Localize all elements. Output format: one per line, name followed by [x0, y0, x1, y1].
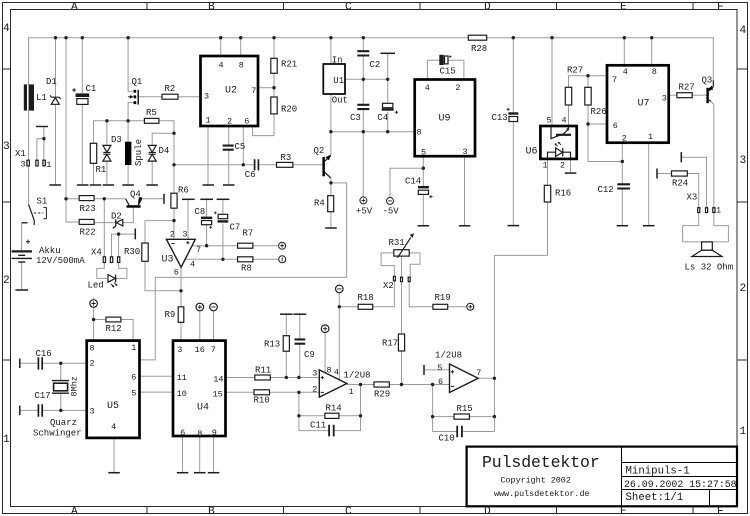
stub bar D2 X4: [134, 229, 136, 240]
ground bar R4: [325, 227, 337, 229]
junction at 401.5,384.5: [400, 383, 403, 386]
title block row lines: [622, 463, 738, 490]
stub bar C7 top: [217, 198, 230, 200]
svg-text:3: 3: [204, 92, 209, 102]
svg-text:R18: R18: [358, 293, 374, 303]
wire C4 bottom: [387, 112, 389, 132]
svg-text:5: 5: [421, 148, 426, 158]
wire R31 right loop: [409, 253, 420, 278]
wire X2 pin3 to R19: [409, 282, 433, 307]
svg-text:X1: X1: [15, 149, 26, 159]
wire R27a top to U7 pin7: [569, 76, 608, 88]
junction at 243.3,164.8: [242, 163, 245, 166]
wire R23 left: [66, 198, 79, 200]
svg-text:L1: L1: [36, 93, 47, 103]
wire U8a minus supply rail: [338, 293, 340, 380]
svg-text:R17: R17: [382, 339, 398, 349]
svg-text:1: 1: [131, 343, 136, 353]
svg-text:4: 4: [425, 83, 430, 93]
junction at 330.9,37.7: [329, 36, 332, 39]
ground bar C12: [617, 225, 629, 227]
diode D1: [51, 98, 59, 105]
svg-text:5: 5: [547, 116, 552, 126]
svg-text:R12: R12: [106, 324, 122, 334]
ground bar R1: [90, 184, 102, 186]
capacitor C5: [223, 146, 234, 150]
wire speaker bracket left: [683, 213, 699, 242]
ground bar U6 pin2: [565, 172, 577, 174]
wire X3 stub to middle pin: [681, 157, 706, 208]
svg-text:R6: R6: [178, 186, 189, 196]
svg-text:4: 4: [111, 422, 116, 432]
ground bar U2 pin1: [203, 184, 215, 186]
stub bar C8 top: [200, 198, 213, 200]
wire antenna stub to C4: [387, 53, 389, 103]
capacitor C15: [440, 55, 443, 64]
resistor R2: [162, 94, 178, 99]
svg-text:F: F: [717, 506, 724, 516]
wire C9 stub down: [299, 314, 301, 339]
resistor R30: [142, 243, 148, 261]
resistor R9: [178, 307, 184, 323]
ground bar U4 pin6: [177, 472, 189, 474]
svg-text:X3: X3: [687, 193, 698, 203]
svg-text:R24: R24: [672, 179, 688, 189]
resistor R10: [254, 390, 270, 395]
svg-text:R7: R7: [243, 229, 254, 239]
wire bus to U7 pin8: [651, 38, 653, 66]
junction at 106.9,120.8: [105, 119, 108, 122]
battery Akku: [12, 250, 32, 252]
wire U8a plus supply: [324, 333, 326, 373]
wire R24 left stub: [657, 173, 672, 175]
wire U4 pin15 to R10: [226, 391, 255, 393]
junction at 339.3,306.8: [338, 305, 341, 308]
ground bar C1: [77, 184, 89, 186]
wire R14 right: [339, 415, 361, 417]
speaker Ls: [702, 242, 713, 250]
svg-text:2: 2: [622, 134, 627, 144]
junction at 240.7,37.7: [239, 36, 242, 39]
junction at 494.4,378.3: [493, 377, 496, 380]
op-amp U8b: [450, 364, 479, 393]
resistor R4: [328, 196, 334, 212]
wire R4 to ground: [330, 212, 332, 228]
svg-text:1: 1: [648, 132, 653, 142]
svg-text:2: 2: [312, 385, 317, 395]
resistor R27a: [565, 87, 571, 105]
junction at 93.6,319.5: [92, 318, 95, 321]
svg-text:3: 3: [662, 94, 667, 104]
svg-text:5: 5: [131, 389, 136, 399]
resistor R22: [79, 219, 94, 224]
junction at 60.8,410.4: [59, 409, 62, 412]
wire R5 right corner to R6 chain: [159, 121, 174, 193]
wire R18 to X2 pin1: [373, 281, 395, 307]
resistor R20: [271, 97, 277, 114]
svg-text:Pulsdetektor: Pulsdetektor: [482, 453, 600, 472]
wire C13 to ground: [512, 122, 514, 226]
quartz crystal: [52, 381, 69, 394]
svg-text:R19: R19: [435, 293, 451, 303]
svg-text:R13: R13: [264, 340, 280, 350]
svg-text:C4: C4: [377, 113, 388, 123]
svg-text:6: 6: [131, 373, 136, 383]
svg-text:R8: R8: [241, 264, 252, 274]
wire R2 to U2 pin3: [178, 96, 201, 98]
junction at 432.6,416.6: [431, 415, 434, 418]
svg-text:In: In: [332, 56, 343, 66]
svg-text:R9: R9: [165, 310, 176, 320]
svg-text:R30: R30: [124, 247, 140, 257]
svg-text:11: 11: [177, 373, 187, 383]
svg-text:4: 4: [623, 67, 628, 77]
junction at 298.9,415.8: [297, 414, 300, 417]
ground bar battery: [15, 289, 28, 291]
junction at 387.7,131.7: [386, 130, 389, 133]
supply circle plus U8a: [321, 325, 329, 333]
svg-text:8: 8: [90, 344, 95, 354]
wire top supply bus left section: [29, 38, 469, 85]
svg-text:X2: X2: [383, 281, 394, 291]
wire U2 pin8 to bus: [240, 38, 242, 56]
svg-text:+5V: +5V: [356, 207, 373, 217]
svg-text:U6: U6: [526, 147, 538, 158]
wire U9 pin8 row: [331, 131, 415, 133]
wire U3 pin7 row to R7: [192, 245, 238, 247]
border right ticks: [737, 69, 748, 360]
stub bar X3 mid: [680, 152, 682, 162]
svg-text:X4: X4: [91, 248, 102, 258]
supply circle plus R19: [467, 303, 474, 310]
svg-text:R28: R28: [471, 44, 487, 54]
junction at 206.6,245.7: [205, 244, 208, 247]
svg-text:C10: C10: [439, 434, 455, 444]
wire R17 bottom: [401, 351, 403, 385]
resistor R19: [433, 304, 448, 309]
wire C12 to ground: [621, 189, 623, 226]
junction at 588,124: [586, 122, 589, 125]
svg-text:1: 1: [716, 206, 721, 216]
wire U5 pin5 to U4 pin10: [140, 391, 174, 393]
wire battery top lead: [21, 223, 23, 251]
junction at 181,290.8: [179, 289, 182, 292]
svg-text:S1: S1: [37, 197, 48, 207]
svg-text:6: 6: [613, 121, 618, 131]
svg-text:4: 4: [190, 260, 195, 270]
capacitor C14: [418, 186, 429, 189]
wire U8a output: [347, 384, 374, 386]
junction at 174,133.2: [172, 132, 175, 135]
wire C3 bottom: [362, 110, 364, 132]
wire U2 pin5 to R20: [253, 114, 274, 136]
svg-text:E: E: [620, 506, 627, 516]
supply circle plus U5 pin8: [90, 300, 98, 308]
svg-text:3: 3: [90, 407, 95, 417]
border left ticks: [3, 69, 11, 360]
transistor Q2: [322, 157, 325, 176]
ground bar C13: [508, 225, 519, 227]
svg-text:1: 1: [543, 161, 548, 171]
connector X3 pins: [698, 208, 700, 213]
wire C8 stub down: [206, 199, 208, 216]
capacitor C6: [255, 159, 259, 170]
svg-text:1/2U8: 1/2U8: [435, 351, 462, 361]
svg-text:Led: Led: [88, 281, 104, 291]
ic U4 box: [173, 341, 226, 436]
resistor R21: [271, 58, 277, 73]
wire X1 pin to S1: [28, 166, 30, 205]
junction at 363.3,131.7: [362, 130, 365, 133]
svg-text:R31: R31: [389, 238, 405, 248]
wire C5 to ground: [228, 151, 230, 185]
wire top supply bus right section: [487, 38, 714, 81]
capacitor C13: [508, 112, 518, 114]
svg-text:U1: U1: [333, 76, 344, 86]
supply circle plus U4 pin16: [196, 303, 204, 311]
capacitor C9: [295, 339, 306, 343]
op-amp U8a: [319, 370, 347, 397]
wire D4 branch: [152, 133, 174, 145]
wire U1 right pin row: [345, 78, 388, 80]
wire Led cathode to X4 pin3: [116, 263, 127, 279]
svg-text:R5: R5: [146, 108, 157, 118]
wire R12 loop: [94, 320, 134, 341]
svg-text:2: 2: [455, 83, 460, 93]
wire battery bottom lead: [21, 262, 23, 290]
wire D3 top: [106, 121, 108, 146]
optocoupler U6 internals: [556, 134, 571, 136]
wire R15 left: [433, 416, 454, 418]
wire R15 right: [469, 416, 494, 418]
resistor R5: [144, 118, 159, 123]
resistor R26: [585, 87, 591, 105]
svg-text:Quarz: Quarz: [50, 418, 77, 428]
stub bar R13 top: [280, 313, 293, 315]
svg-text:3: 3: [463, 147, 468, 157]
transistor Q3: [706, 88, 708, 103]
junction at 588,75.7: [586, 74, 589, 77]
wire R29 to pin6 row: [389, 384, 449, 386]
svg-text:C2: C2: [370, 60, 381, 70]
led Led: [108, 275, 115, 283]
stub bar C16 left: [19, 359, 21, 368]
wire C8 bottom: [206, 225, 208, 246]
wire U8b feedback left: [432, 385, 434, 417]
svg-text:U5: U5: [107, 401, 119, 412]
svg-text:R10: R10: [254, 396, 270, 406]
svg-text:4: 4: [740, 25, 747, 37]
wire node at y120.8 R1 D3 Q1 R5: [94, 120, 145, 122]
svg-text:C5: C5: [235, 142, 246, 152]
capacitor C12: [617, 184, 630, 188]
wire R19 to plus circle: [448, 306, 467, 308]
svg-text:U2: U2: [225, 86, 237, 97]
svg-text:4: 4: [334, 367, 339, 377]
svg-text:R21: R21: [281, 60, 297, 70]
svg-text:R23: R23: [80, 204, 96, 214]
ground bar Spule: [122, 184, 134, 186]
wire U2 pin7 to R21 R20 node: [258, 87, 274, 89]
ground bar U4 pin9: [208, 472, 220, 474]
svg-text:Ls 32 Ohm: Ls 32 Ohm: [685, 263, 734, 273]
wire bus to Q1 drain: [128, 38, 134, 91]
wire U4 pin9 to ground: [213, 436, 215, 473]
svg-text:R27: R27: [679, 83, 695, 93]
wire R13 bottom to pin3 row: [285, 351, 287, 377]
svg-text:U4: U4: [197, 403, 209, 414]
svg-text:2: 2: [560, 161, 565, 171]
resistor R7: [238, 243, 253, 248]
wire R21 to R20 node: [273, 73, 275, 97]
wire R3 to Q2 base: [293, 164, 323, 166]
capacitor C4: [383, 103, 393, 107]
wire bus to C1: [81, 38, 83, 94]
svg-text:6: 6: [174, 268, 179, 278]
svg-text:Sheet:1/1: Sheet:1/1: [626, 492, 684, 504]
svg-text:12V/500mA: 12V/500mA: [36, 256, 85, 266]
border top ticks: [147, 3, 693, 10]
junction at 118.6,234.1: [117, 232, 120, 235]
wire R24 right to X3 left pin: [687, 174, 698, 208]
wire R9 to U4 pin3: [180, 322, 182, 340]
wire C11 loop: [299, 416, 361, 431]
junction at 363.3,37.7: [362, 36, 365, 39]
svg-text:R2: R2: [165, 84, 176, 94]
wire U8a output to feedback: [360, 385, 362, 416]
wire U7 pin2 to C12: [621, 143, 623, 184]
junction at 66,37.7: [64, 36, 67, 39]
wire U3 pin3 to top stub: [187, 199, 189, 239]
svg-text:Q1: Q1: [132, 77, 143, 87]
junction at 66,198.8: [64, 197, 67, 200]
svg-text:R20: R20: [281, 105, 297, 115]
junction at 387.7,79.3: [386, 78, 389, 81]
resistor R29: [374, 382, 389, 387]
wire Spule top: [127, 121, 129, 142]
wire D1 to ground: [55, 104, 57, 184]
suppressor D4: [148, 145, 156, 161]
supply circle minus5V: [387, 197, 394, 204]
svg-text:1: 1: [740, 426, 747, 438]
svg-text:8Mhz: 8Mhz: [70, 376, 80, 396]
svg-text:4: 4: [3, 23, 10, 35]
junction at 513.3,37.7: [512, 36, 515, 39]
resistor R15: [454, 414, 469, 419]
svg-text:8: 8: [327, 366, 332, 376]
title block frame: [467, 447, 737, 507]
wire bus to C13: [512, 38, 514, 113]
svg-text:7: 7: [196, 245, 201, 255]
svg-text:E: E: [620, 1, 627, 13]
junction at 298.9,377.5: [297, 376, 300, 379]
wire R23 node down to X4 pin1: [103, 199, 105, 257]
junction at 286.3,377.5: [285, 376, 288, 379]
wire D4 to ground: [151, 161, 153, 185]
svg-text:8: 8: [197, 429, 202, 439]
svg-text:R15: R15: [457, 404, 473, 414]
svg-text:U9: U9: [439, 114, 451, 125]
optocoupler U6 box: [540, 126, 576, 159]
coil Spule: [125, 142, 131, 165]
svg-text:C: C: [345, 1, 352, 13]
svg-text:3: 3: [740, 155, 747, 167]
junction at 174,220.6: [172, 219, 175, 222]
wire X2 pin2 to R17: [401, 282, 403, 334]
svg-text:C6: C6: [245, 170, 256, 180]
svg-text:4: 4: [562, 116, 567, 126]
wire R26 bottom chain: [588, 105, 622, 162]
junction at 624.3,37.7: [623, 36, 626, 39]
wire speaker bracket right: [714, 213, 729, 242]
svg-text:C17: C17: [35, 391, 51, 401]
supply circle plus5V: [360, 197, 367, 204]
junction at 423.3,168.2: [422, 167, 425, 170]
wire C14 to ground: [422, 194, 424, 225]
wire bus to U7 pin4: [623, 38, 625, 66]
wire R7 to plus circle: [253, 245, 279, 247]
connector X2 pins: [393, 276, 395, 280]
wire R16 bottom: [547, 202, 549, 255]
svg-text:1: 1: [206, 116, 211, 126]
capacitor C1: [76, 94, 88, 96]
capacitor C7: [218, 214, 228, 218]
svg-text:R4: R4: [314, 199, 325, 209]
wire plus circle to U4 pin16: [199, 311, 201, 341]
wire minus node to R18: [339, 306, 358, 308]
wire R23 right to Q4: [94, 198, 126, 200]
potentiometer R31: [394, 250, 409, 256]
wire U6 pin2 to ground: [570, 159, 572, 173]
wire U3 pin6 output down: [180, 267, 182, 307]
stub bar C17 left: [19, 406, 21, 415]
junction at 128.1,120.8: [126, 119, 129, 122]
junction at 82.3,37.7: [81, 36, 84, 39]
svg-text:R22: R22: [80, 228, 96, 238]
wire R27b to Q3 base: [692, 94, 706, 96]
wire output rail up to R16: [494, 255, 547, 431]
suppressor D3: [103, 145, 111, 161]
transistor Q4: [127, 205, 141, 208]
border bottom ticks: [147, 507, 693, 514]
resistor R27b: [677, 93, 692, 98]
wire R31 wiper to X2 pin2: [401, 256, 403, 277]
svg-text:C9: C9: [304, 350, 315, 360]
wire U5 pin4 to ground: [113, 438, 115, 473]
resistor R8: [238, 257, 253, 262]
svg-text:6: 6: [180, 428, 185, 438]
supply circle minus U4 pin7: [210, 303, 218, 311]
svg-text:A: A: [71, 1, 78, 13]
wire L1 to X1 pin: [28, 110, 30, 160]
stub bar antenna C4: [381, 52, 396, 54]
connector X1 pins: [27, 160, 29, 166]
junction at 363.3,79.3: [362, 78, 365, 81]
junction at 274,87.7: [272, 86, 275, 89]
svg-text:10: 10: [177, 389, 187, 399]
junction at 298.9,392.3: [297, 391, 300, 394]
svg-text:8: 8: [239, 61, 244, 71]
wire Q1 source down: [128, 103, 134, 121]
svg-text:8: 8: [417, 128, 422, 138]
wire U2 pin1 to ground: [207, 126, 209, 185]
ic U1 box: [323, 64, 345, 94]
svg-text:D: D: [484, 506, 491, 516]
svg-text:C12: C12: [598, 185, 614, 195]
junction at 274,37.7: [272, 36, 275, 39]
capacitor C17: [38, 404, 42, 416]
svg-text:B: B: [208, 1, 215, 13]
